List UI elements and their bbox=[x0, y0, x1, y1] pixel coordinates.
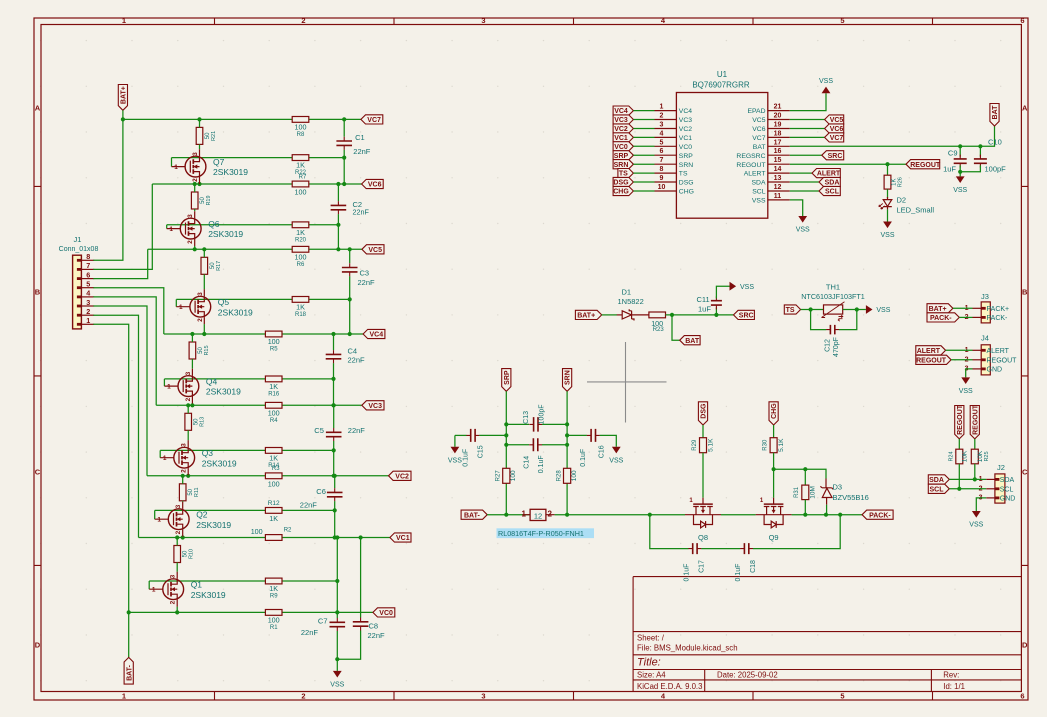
svg-text:C18: C18 bbox=[750, 560, 757, 573]
U1 pin 20 VC5 bbox=[768, 119, 790, 121]
resistor R31 10M bbox=[804, 469, 806, 485]
svg-text:2: 2 bbox=[301, 16, 305, 25]
svg-text:C1: C1 bbox=[355, 133, 365, 142]
svg-text:4: 4 bbox=[660, 130, 664, 137]
svg-text:PACK-: PACK- bbox=[930, 315, 952, 322]
svg-text:2: 2 bbox=[192, 178, 199, 182]
svg-text:5: 5 bbox=[840, 692, 844, 701]
svg-text:J4: J4 bbox=[981, 333, 989, 342]
LED D2 LED_Small bbox=[879, 197, 892, 209]
svg-text:3: 3 bbox=[170, 574, 177, 578]
svg-text:8: 8 bbox=[86, 252, 90, 261]
svg-text:R29: R29 bbox=[692, 439, 698, 451]
resistor R3 100 bbox=[265, 473, 282, 479]
capacitor C5 22nF bbox=[326, 432, 342, 436]
capacitor C6 22nF bbox=[327, 492, 343, 496]
label VC2 bbox=[389, 471, 412, 480]
U1 pin 12 SCL bbox=[768, 190, 790, 192]
wire J1 pin5 to VC4 row bbox=[93, 288, 164, 334]
transistor Q4 2SK3019 bbox=[164, 369, 198, 404]
svg-text:19: 19 bbox=[774, 122, 782, 129]
label VC7 (U1 right) bbox=[825, 133, 844, 142]
resistor R21 50 bbox=[196, 127, 203, 144]
wire J1 pin3 to VC2 row bbox=[93, 306, 147, 476]
svg-text:VSS: VSS bbox=[330, 681, 344, 688]
wire VC5 to R17 bbox=[203, 249, 205, 257]
resistor R13 50 bbox=[185, 413, 192, 430]
svg-text:1: 1 bbox=[157, 517, 161, 524]
svg-text:D2: D2 bbox=[897, 196, 907, 205]
wire U1 to label SDA bbox=[790, 181, 819, 183]
label VC5 (U1 right) bbox=[825, 115, 844, 124]
svg-text:1N5822: 1N5822 bbox=[618, 297, 644, 306]
resistor R28 100 bbox=[564, 468, 571, 483]
label VC4 bbox=[363, 329, 385, 338]
svg-text:ALERT: ALERT bbox=[987, 348, 1010, 355]
svg-text:Sheet: /: Sheet: / bbox=[637, 634, 665, 643]
svg-text:11: 11 bbox=[774, 193, 782, 200]
svg-text:100: 100 bbox=[251, 527, 263, 536]
svg-text:R31: R31 bbox=[794, 486, 800, 498]
svg-text:GND: GND bbox=[1000, 496, 1016, 503]
svg-text:REGOUT: REGOUT bbox=[736, 162, 765, 169]
svg-text:REGSRC: REGSRC bbox=[736, 153, 765, 160]
svg-text:R28: R28 bbox=[556, 470, 562, 482]
U1 pin 19 VC6 bbox=[768, 128, 790, 130]
svg-text:VSS: VSS bbox=[819, 78, 833, 85]
svg-text:C14: C14 bbox=[524, 456, 531, 469]
svg-text:VC0: VC0 bbox=[679, 144, 692, 151]
svg-text:REGOUT: REGOUT bbox=[910, 162, 941, 169]
svg-text:5.1K: 5.1K bbox=[708, 438, 715, 452]
svg-text:100pF: 100pF bbox=[539, 404, 546, 424]
svg-text:1: 1 bbox=[86, 316, 90, 325]
svg-text:7: 7 bbox=[86, 261, 90, 270]
label PACK- (middle) bbox=[862, 510, 893, 519]
svg-text:2: 2 bbox=[181, 469, 188, 473]
transistor Q6 2SK3019 bbox=[167, 211, 201, 246]
svg-text:DSG: DSG bbox=[679, 180, 694, 187]
label DSG (vertical) bbox=[698, 402, 707, 425]
svg-text:1: 1 bbox=[152, 587, 156, 594]
svg-text:12: 12 bbox=[774, 184, 782, 191]
svg-text:C11: C11 bbox=[697, 295, 710, 304]
capacitor C10 100pF bbox=[979, 146, 981, 156]
thermistor TH1 NTC6103JF103FT1 bbox=[824, 305, 843, 314]
svg-text:2SK3019: 2SK3019 bbox=[213, 167, 248, 177]
capacitor C3 22nF bbox=[342, 268, 358, 272]
svg-text:SDA: SDA bbox=[929, 477, 944, 484]
resistor R5 100 bbox=[265, 331, 282, 337]
power VSS (below D2) bbox=[883, 222, 892, 229]
wire Q3 gate row bbox=[160, 449, 334, 451]
wire TH1 right bbox=[843, 309, 866, 311]
svg-text:1K: 1K bbox=[296, 302, 305, 311]
wire U1 to label SRC bbox=[790, 154, 822, 156]
svg-text:2SK3019: 2SK3019 bbox=[218, 307, 253, 317]
svg-text:17: 17 bbox=[774, 139, 782, 146]
U1 pin 7 SRN bbox=[655, 163, 677, 165]
svg-text:VC1: VC1 bbox=[679, 135, 692, 142]
svg-text:VC7: VC7 bbox=[752, 135, 765, 142]
resistor R27 100 bbox=[503, 468, 510, 483]
svg-text:22nF: 22nF bbox=[353, 147, 371, 156]
wire Q1 source to VC0 row bbox=[176, 607, 178, 613]
svg-text:VSS: VSS bbox=[969, 522, 983, 529]
svg-text:Q4: Q4 bbox=[206, 377, 218, 387]
wire ALERT to J4 pin1 bbox=[946, 349, 973, 351]
svg-text:R21: R21 bbox=[211, 131, 217, 141]
wire J1 pin4 to VC3 row bbox=[93, 297, 156, 405]
svg-text:C9: C9 bbox=[948, 148, 958, 157]
svg-text:3: 3 bbox=[187, 214, 194, 218]
wire Q6 source to VC5 row bbox=[194, 246, 196, 249]
resistor R18 1K bbox=[292, 297, 309, 303]
svg-text:J1: J1 bbox=[74, 235, 82, 244]
label VC4 (U1 left) bbox=[613, 106, 633, 115]
svg-text:Title:: Title: bbox=[637, 657, 661, 669]
label BAT+ (J3) bbox=[927, 304, 953, 313]
wire Q6 gate drop bbox=[166, 225, 168, 229]
J1 pin 1 bbox=[81, 323, 94, 325]
svg-text:3: 3 bbox=[192, 152, 199, 156]
power VSS (below C9) bbox=[956, 176, 965, 183]
svg-text:R15: R15 bbox=[204, 345, 210, 355]
capacitor C8 22nF bbox=[360, 538, 362, 618]
svg-text:22nF: 22nF bbox=[348, 426, 366, 435]
svg-text:VC6: VC6 bbox=[368, 182, 382, 189]
svg-text:BAT: BAT bbox=[685, 338, 700, 345]
svg-text:VSS: VSS bbox=[876, 307, 890, 314]
svg-text:R9: R9 bbox=[270, 594, 278, 600]
svg-text:100: 100 bbox=[268, 408, 280, 417]
IC U1 BQ76907RGRR bbox=[676, 93, 767, 219]
svg-text:Q8: Q8 bbox=[698, 533, 708, 542]
wire R24 to SCL row bbox=[958, 464, 960, 489]
svg-text:VC3: VC3 bbox=[614, 117, 628, 124]
svg-text:21: 21 bbox=[774, 104, 782, 111]
svg-text:C6: C6 bbox=[316, 487, 326, 496]
transistor Q8 bbox=[685, 498, 721, 528]
wire shunt to Q8 bbox=[555, 514, 685, 516]
wire VC3 to R13 bbox=[187, 405, 189, 413]
power VSS (right of C11) bbox=[730, 282, 737, 291]
junction dots BAT caps bbox=[958, 144, 962, 148]
svg-text:VSS: VSS bbox=[609, 457, 623, 464]
wire VC6 row bbox=[152, 183, 361, 185]
svg-text:1: 1 bbox=[169, 226, 173, 233]
wire Q7 gate row bbox=[172, 157, 345, 159]
svg-text:VSS: VSS bbox=[953, 187, 967, 194]
label DSG (U1 left) bbox=[613, 177, 633, 186]
svg-text:C7: C7 bbox=[318, 617, 328, 626]
wire Q2 gate drop bbox=[154, 510, 156, 519]
svg-text:R23: R23 bbox=[653, 327, 665, 333]
svg-text:R16: R16 bbox=[268, 391, 280, 397]
svg-text:SDA: SDA bbox=[1000, 477, 1015, 484]
svg-text:C17: C17 bbox=[698, 560, 705, 573]
wire REGOUT to R25 bbox=[974, 439, 976, 449]
label VC1 (U1 left) bbox=[613, 133, 633, 142]
capacitor C2 22nF bbox=[331, 205, 347, 209]
wire TS to U1 pin 8 bbox=[633, 172, 654, 174]
J1 pin 2 bbox=[81, 314, 94, 316]
svg-text:R27: R27 bbox=[496, 470, 502, 482]
wire VC2 row bbox=[147, 475, 389, 477]
svg-text:6: 6 bbox=[86, 270, 90, 279]
resistor R12 1K bbox=[265, 508, 282, 514]
svg-text:Size: A4: Size: A4 bbox=[637, 671, 666, 680]
svg-text:2: 2 bbox=[660, 113, 664, 120]
svg-text:VC3: VC3 bbox=[368, 403, 382, 410]
label BAT (vertical) bbox=[990, 104, 999, 127]
svg-text:2: 2 bbox=[187, 240, 194, 244]
wire chain VC6 to VC5 bbox=[337, 184, 339, 201]
svg-text:15: 15 bbox=[774, 157, 782, 164]
label VC0 (U1 left) bbox=[613, 142, 633, 151]
wire BAT net bbox=[790, 126, 995, 146]
svg-text:1K: 1K bbox=[269, 584, 278, 593]
svg-text:REGOUT: REGOUT bbox=[987, 357, 1018, 364]
J4 pin 2 REGOUT bbox=[973, 359, 982, 361]
svg-text:1K: 1K bbox=[296, 161, 305, 170]
svg-text:VC4: VC4 bbox=[369, 332, 383, 339]
wire J1 pin8 to BAT+ row bbox=[93, 119, 123, 260]
svg-text:B: B bbox=[1022, 288, 1028, 297]
svg-text:RL0816T4F-P-R050-FNH1: RL0816T4F-P-R050-FNH1 bbox=[498, 529, 584, 538]
wire CHG to R30 bbox=[773, 425, 775, 438]
label VC7 bbox=[361, 115, 383, 124]
wire VC2 to R11 bbox=[182, 476, 184, 484]
capacitor C13 100pF bbox=[506, 423, 529, 425]
svg-text:2SK3019: 2SK3019 bbox=[196, 520, 231, 530]
svg-text:3: 3 bbox=[175, 504, 182, 508]
svg-text:C: C bbox=[1022, 468, 1028, 477]
resistor R2 100 bbox=[265, 535, 282, 541]
svg-text:B: B bbox=[35, 288, 41, 297]
svg-text:Q9: Q9 bbox=[769, 533, 779, 542]
label TS (middle) bbox=[784, 305, 800, 314]
wire U1 to label VC5 bbox=[790, 119, 825, 121]
resistor R7 100 bbox=[292, 181, 309, 187]
U1 pin 2 VC3 bbox=[655, 119, 677, 121]
svg-text:A: A bbox=[35, 104, 41, 113]
svg-text:VC6: VC6 bbox=[752, 126, 765, 133]
U1 pin 18 VC7 bbox=[768, 136, 790, 138]
svg-text:1: 1 bbox=[122, 16, 126, 25]
wire SRP to U1 pin 6 bbox=[633, 154, 654, 156]
svg-text:Q7: Q7 bbox=[213, 157, 225, 167]
wire CHG to U1 pin 10 bbox=[633, 190, 654, 192]
label TS (U1 left) bbox=[618, 169, 634, 178]
wire DSG to R29 bbox=[702, 425, 704, 438]
svg-text:U1: U1 bbox=[717, 70, 728, 79]
svg-text:1: 1 bbox=[660, 104, 664, 111]
wire SRN chain bbox=[566, 391, 568, 514]
wire BAT+ to J3 pin1 bbox=[953, 307, 973, 309]
svg-text:R19: R19 bbox=[206, 195, 212, 205]
U1 pin 21 EPAD bbox=[768, 110, 790, 112]
svg-text:1K: 1K bbox=[296, 228, 305, 237]
capacitor C1 22nF bbox=[336, 141, 352, 145]
svg-text:R24: R24 bbox=[949, 451, 955, 461]
connector J3 bbox=[981, 302, 990, 323]
junction dots VC rows bbox=[121, 117, 125, 121]
svg-text:SDA: SDA bbox=[752, 180, 766, 187]
wire R23 to SRC bbox=[666, 314, 734, 316]
transistor Q7 2SK3019 bbox=[172, 149, 206, 184]
svg-text:D3: D3 bbox=[833, 483, 843, 492]
label BAT- (bottom) bbox=[128, 612, 130, 657]
resistor R11 50 bbox=[179, 484, 186, 501]
capacitor C17 0.1uF bbox=[650, 515, 689, 549]
svg-text:2SK3019: 2SK3019 bbox=[206, 387, 241, 397]
svg-text:PACK+: PACK+ bbox=[987, 306, 1010, 313]
svg-text:1uF: 1uF bbox=[943, 164, 956, 173]
svg-text:R10: R10 bbox=[189, 549, 195, 559]
svg-text:REGOUT: REGOUT bbox=[972, 404, 979, 435]
wire VC1 to R10 bbox=[176, 538, 178, 546]
label VC3 (U1 left) bbox=[613, 115, 633, 124]
power VSS (below C15) bbox=[451, 447, 460, 454]
label PACK- (J3) bbox=[927, 313, 959, 322]
wire caps to VSS bbox=[958, 170, 962, 174]
svg-text:DSG: DSG bbox=[613, 180, 629, 187]
resistor R25 10K bbox=[971, 449, 978, 464]
resistor R22 1K bbox=[292, 155, 309, 161]
svg-text:22nF: 22nF bbox=[358, 278, 376, 287]
wire Q7 source to VC6 row bbox=[199, 183, 201, 185]
svg-text:6: 6 bbox=[1020, 692, 1024, 701]
wire VC6 to R19 bbox=[194, 184, 196, 192]
wire VC3 to U1 pin 2 bbox=[633, 119, 654, 121]
svg-text:R6: R6 bbox=[297, 262, 305, 268]
svg-text:1K: 1K bbox=[269, 453, 278, 462]
svg-text:1: 1 bbox=[174, 164, 178, 171]
U1 pin 5 VC0 bbox=[655, 145, 677, 147]
wire PACK- to J3 pin2 bbox=[959, 316, 972, 318]
svg-text:100: 100 bbox=[295, 188, 307, 197]
svg-text:R12: R12 bbox=[268, 500, 280, 507]
svg-text:TS: TS bbox=[679, 171, 688, 178]
resistor R1 100 bbox=[265, 610, 282, 616]
svg-text:Rev:: Rev: bbox=[943, 671, 959, 680]
label REGOUT (U1 right) bbox=[906, 160, 940, 169]
svg-text:1: 1 bbox=[122, 692, 126, 701]
svg-text:5.1K: 5.1K bbox=[778, 438, 785, 452]
wire EPAD to VSS bbox=[790, 93, 826, 110]
wire R15 to Q4 drain bbox=[191, 359, 193, 369]
svg-text:NTC6103JF103FT1: NTC6103JF103FT1 bbox=[801, 292, 865, 301]
svg-text:18: 18 bbox=[774, 130, 782, 137]
wire Q8-Q9 bbox=[721, 514, 756, 516]
wire J1 pin2 to VC1 row bbox=[93, 315, 138, 537]
capacitor C4 22nF bbox=[326, 354, 342, 358]
svg-text:100: 100 bbox=[268, 337, 280, 346]
svg-text:VC4: VC4 bbox=[614, 108, 628, 115]
svg-text:2SK3019: 2SK3019 bbox=[208, 229, 243, 239]
J2 pin 2 SCL bbox=[986, 488, 995, 490]
transistor Q9 bbox=[756, 498, 792, 528]
svg-text:BAT-: BAT- bbox=[126, 664, 133, 680]
svg-text:C5: C5 bbox=[314, 426, 324, 435]
svg-text:0.1uF: 0.1uF bbox=[580, 449, 587, 467]
svg-text:D: D bbox=[35, 641, 41, 650]
svg-text:SRN: SRN bbox=[679, 162, 693, 169]
svg-text:VC7: VC7 bbox=[367, 117, 381, 124]
wire D2 to VSS bbox=[887, 209, 889, 221]
svg-text:VC5: VC5 bbox=[368, 247, 382, 254]
svg-text:100: 100 bbox=[510, 470, 517, 481]
svg-text:R4: R4 bbox=[270, 418, 278, 424]
svg-text:R13: R13 bbox=[200, 417, 206, 427]
svg-text:R17: R17 bbox=[216, 261, 222, 271]
svg-text:VSS: VSS bbox=[959, 388, 973, 395]
resistor R16 1K bbox=[265, 376, 282, 382]
svg-text:CHG: CHG bbox=[771, 403, 778, 419]
U1 pin 16 REGSRC bbox=[768, 154, 790, 156]
wire VC7 to R21 bbox=[199, 119, 201, 127]
svg-text:VC5: VC5 bbox=[752, 117, 765, 124]
svg-text:100: 100 bbox=[571, 470, 578, 481]
svg-text:2: 2 bbox=[175, 530, 182, 534]
svg-text:C10: C10 bbox=[988, 137, 1002, 146]
svg-text:14: 14 bbox=[774, 166, 782, 173]
wire chain VC1 to VC0 bbox=[336, 538, 338, 613]
svg-text:BZV55B16: BZV55B16 bbox=[833, 493, 869, 502]
junction node REGOUT/R26 bbox=[885, 162, 889, 166]
svg-text:6: 6 bbox=[660, 148, 664, 155]
wire Q3 gate drop bbox=[159, 450, 161, 457]
wire J1 pin7 to VC6 row bbox=[93, 184, 152, 269]
svg-text:R8: R8 bbox=[297, 132, 305, 138]
svg-text:100: 100 bbox=[295, 252, 307, 261]
wire R29 to Q8 gate bbox=[702, 453, 704, 498]
svg-text:BAT+: BAT+ bbox=[121, 86, 128, 104]
svg-text:2: 2 bbox=[86, 307, 90, 316]
svg-text:TH1: TH1 bbox=[826, 282, 840, 291]
svg-text:VSS: VSS bbox=[740, 284, 754, 291]
resistor R17 50 bbox=[201, 257, 208, 274]
capacitor C7 22nF bbox=[336, 612, 338, 618]
zener D3 BZV55B16 bbox=[820, 479, 833, 505]
svg-text:VC5: VC5 bbox=[830, 117, 844, 124]
label SRN (U1 left) bbox=[613, 160, 633, 169]
svg-text:Q1: Q1 bbox=[191, 580, 203, 590]
wire U1 VSS pin 11 bbox=[790, 200, 803, 216]
J1 pin 5 bbox=[81, 287, 94, 289]
svg-text:R7: R7 bbox=[299, 175, 307, 181]
svg-text:Q2: Q2 bbox=[196, 510, 208, 520]
svg-text:9: 9 bbox=[660, 175, 664, 182]
svg-text:CHG: CHG bbox=[613, 189, 629, 196]
svg-text:22nF: 22nF bbox=[353, 208, 370, 217]
connector J4 bbox=[981, 345, 990, 375]
wire REGOUT to J4 pin2 bbox=[951, 359, 972, 361]
svg-text:100pF: 100pF bbox=[985, 164, 1007, 173]
svg-text:1K: 1K bbox=[269, 514, 278, 523]
svg-text:22nF: 22nF bbox=[368, 631, 386, 640]
svg-text:GND: GND bbox=[987, 367, 1003, 374]
J1 pin 8 bbox=[81, 259, 94, 261]
svg-text:6: 6 bbox=[1020, 16, 1024, 25]
svg-text:C3: C3 bbox=[360, 268, 370, 277]
svg-text:1K: 1K bbox=[269, 382, 278, 391]
svg-text:10K: 10K bbox=[977, 450, 984, 462]
wire Q4 gate row bbox=[164, 378, 333, 380]
wire SRN to U1 pin 7 bbox=[633, 163, 654, 165]
wire REGOUT to R24 bbox=[958, 439, 960, 449]
